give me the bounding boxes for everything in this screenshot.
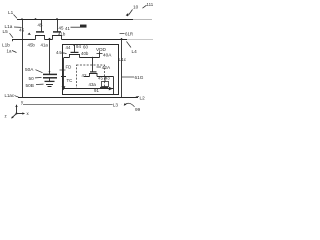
svg-text:43: 43 bbox=[105, 75, 110, 80]
svg-text:40A: 40A bbox=[103, 53, 112, 58]
svg-text:50A: 50A bbox=[25, 67, 34, 72]
svg-text:41a: 41a bbox=[41, 42, 49, 47]
svg-text:99: 99 bbox=[135, 107, 141, 112]
svg-text:91: 91 bbox=[94, 88, 99, 93]
svg-text:42: 42 bbox=[82, 73, 87, 78]
svg-text:45: 45 bbox=[98, 75, 103, 80]
svg-text:TC: TC bbox=[67, 78, 73, 83]
svg-text:45b: 45b bbox=[28, 42, 36, 47]
svg-text:61R: 61R bbox=[125, 32, 133, 37]
svg-text:y: y bbox=[21, 100, 24, 105]
svg-text:50B: 50B bbox=[26, 83, 34, 88]
svg-text:43a: 43a bbox=[89, 82, 97, 87]
svg-text:45: 45 bbox=[38, 23, 43, 28]
svg-text:L1c: L1c bbox=[119, 57, 127, 62]
svg-text:L1b: L1b bbox=[2, 43, 10, 48]
svg-text:44A: 44A bbox=[56, 50, 64, 55]
svg-text:L1: L1 bbox=[8, 10, 14, 15]
svg-text:60: 60 bbox=[83, 44, 88, 49]
svg-text:94: 94 bbox=[76, 44, 81, 49]
svg-text:10: 10 bbox=[133, 5, 139, 10]
svg-text:44: 44 bbox=[66, 45, 71, 50]
svg-text:41b: 41b bbox=[58, 32, 66, 37]
svg-text:42A: 42A bbox=[102, 65, 111, 70]
svg-text:1a: 1a bbox=[7, 48, 12, 53]
svg-text:z: z bbox=[5, 114, 7, 119]
svg-text:40b: 40b bbox=[81, 51, 89, 56]
svg-text:L4: L4 bbox=[132, 49, 138, 54]
svg-text:41: 41 bbox=[65, 26, 70, 31]
svg-text:50: 50 bbox=[29, 76, 35, 81]
svg-text:45: 45 bbox=[19, 27, 25, 32]
svg-text:VDD: VDD bbox=[96, 47, 107, 52]
svg-text:111: 111 bbox=[147, 2, 154, 7]
svg-text:FD: FD bbox=[66, 65, 72, 70]
svg-text:L5: L5 bbox=[3, 29, 9, 34]
svg-text:L2: L2 bbox=[140, 96, 146, 101]
svg-text:45: 45 bbox=[59, 26, 64, 31]
svg-text:x: x bbox=[27, 111, 30, 116]
svg-text:61G: 61G bbox=[135, 75, 144, 80]
svg-text:L3: L3 bbox=[113, 103, 119, 108]
svg-text:L1ac: L1ac bbox=[5, 93, 15, 98]
